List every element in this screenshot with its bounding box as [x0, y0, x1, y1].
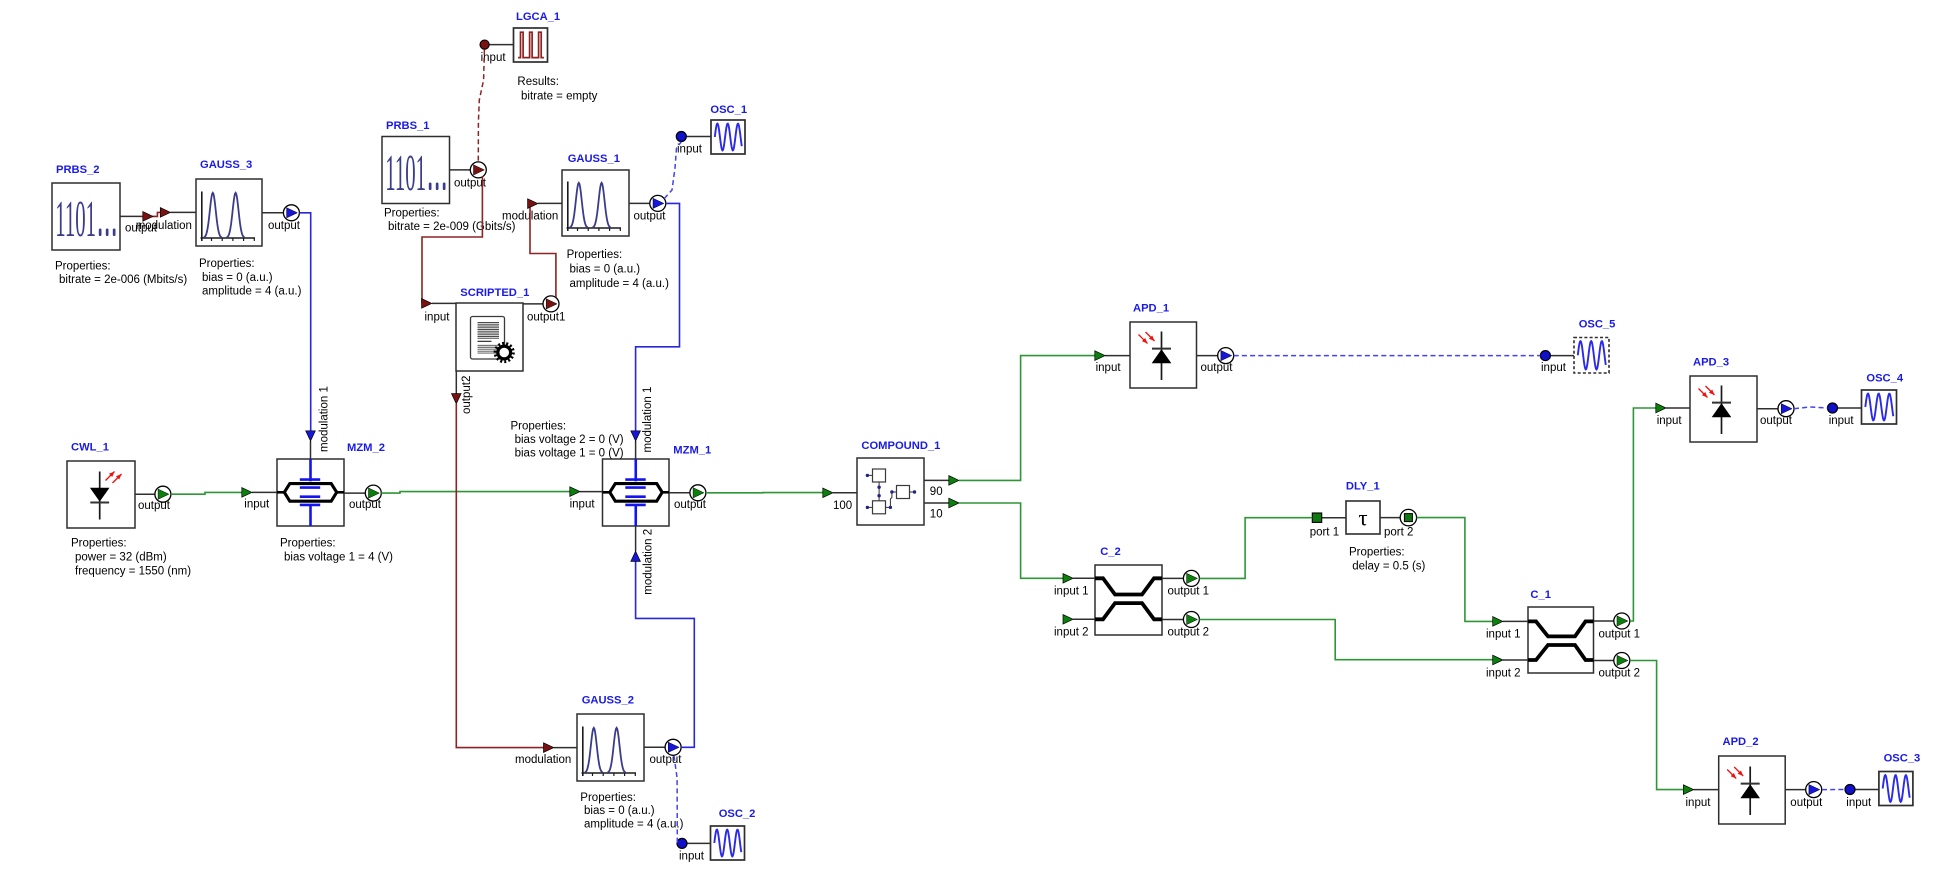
Mach-Zehnder modulator MZM_2: [277, 459, 344, 526]
oscilloscope OSC_2: [711, 826, 745, 860]
wire GAUSS_2.output to MZM_1.modulation2: [631, 551, 695, 747]
wire PRBS_1.output to SCRIPTED_1.input: [422, 176, 483, 308]
svg-text:output: output: [634, 211, 667, 223]
port C_1.output1: [1594, 613, 1641, 640]
label MZM_1: [673, 445, 711, 457]
svg-text:output: output: [1760, 415, 1793, 427]
wire SCRIPTED_1.output1 to GAUSS_1.modulation: [528, 199, 556, 297]
wire C_1.output2 to APD_2.input: [1630, 661, 1694, 795]
svg-text:OSC_4: OSC_4: [1866, 373, 1903, 385]
svg-text:amplitude = 4 (a.u.): amplitude = 4 (a.u.): [202, 286, 302, 298]
port SCRIPTED_1.input: [425, 303, 457, 323]
port MZM_1.output: [669, 485, 707, 511]
properties GAUSS_3: [199, 258, 302, 298]
avalanche photodiode APD_2: [1719, 756, 1786, 824]
svg-text:input 2: input 2: [1486, 667, 1521, 679]
wire GAUSS_1.output to OSC_1.input: [664, 142, 681, 199]
svg-text:input: input: [1541, 362, 1567, 374]
wire C_1.output1 to APD_3.input: [1630, 403, 1666, 621]
svg-text:output1: output1: [527, 312, 565, 324]
svg-text:output 2: output 2: [1168, 626, 1210, 638]
port COMPOUND_1.input 100: [833, 493, 857, 512]
port DLY_1.port1: [1310, 513, 1346, 539]
svg-text:output 1: output 1: [1599, 628, 1641, 640]
svg-text:output 1: output 1: [1168, 585, 1210, 597]
svg-text:GAUSS_1: GAUSS_1: [568, 153, 620, 165]
port OSC_5.input: [1540, 351, 1574, 374]
port OSC_1.input: [676, 132, 711, 156]
svg-text:bias voltage 1 = 4 (V): bias voltage 1 = 4 (V): [284, 552, 393, 564]
svg-text:delay = 0.5 (s): delay = 0.5 (s): [1352, 561, 1425, 573]
label GAUSS_3: [200, 159, 252, 171]
svg-text:modulation 1: modulation 1: [319, 386, 331, 452]
svg-text:input: input: [244, 499, 270, 511]
svg-text:LGCA_1: LGCA_1: [516, 11, 560, 23]
port APD_2.output: [1785, 782, 1823, 809]
svg-text:τ: τ: [1358, 506, 1367, 531]
svg-text:Properties:: Properties:: [280, 538, 336, 550]
port APD_1.input: [1096, 356, 1130, 374]
port OSC_4.input: [1828, 403, 1862, 427]
svg-text:bias = 0 (a.u.): bias = 0 (a.u.): [570, 264, 641, 276]
svg-text:input: input: [1686, 797, 1712, 809]
svg-text:MZM_2: MZM_2: [347, 442, 385, 454]
wire DLY_1.port2 to C_1.input1: [1417, 518, 1503, 627]
svg-text:output: output: [138, 500, 171, 512]
svg-text:10: 10: [930, 509, 943, 521]
label APD_3: [1693, 357, 1729, 369]
svg-text:output: output: [349, 499, 382, 511]
svg-text:input: input: [679, 851, 705, 863]
svg-text:Properties:: Properties:: [55, 261, 111, 273]
svg-text:bias voltage 1 = 0 (V): bias voltage 1 = 0 (V): [515, 448, 624, 460]
label CWL_1: [71, 442, 109, 454]
PRBS generator PRBS_1: [382, 137, 450, 204]
svg-text:Properties:: Properties:: [567, 249, 623, 261]
scripted block SCRIPTED_1: [456, 303, 523, 371]
port GAUSS_3.modulation: [136, 212, 196, 232]
wire COMPOUND_1.output90 to APD_1.input: [959, 351, 1105, 481]
port C_2.output2: [1162, 612, 1209, 639]
port MZM_2.output: [344, 485, 382, 511]
port C_2.input1: [1054, 578, 1095, 597]
label DLY_1: [1346, 481, 1380, 493]
label SCRIPTED_1: [460, 287, 529, 299]
avalanche photodiode APD_3: [1690, 376, 1757, 442]
svg-text:APD_2: APD_2: [1723, 736, 1759, 748]
svg-text:output: output: [1201, 362, 1234, 374]
port APD_1.output: [1197, 348, 1234, 374]
port LGCA_1.input: [480, 40, 514, 64]
svg-text:input 1: input 1: [1054, 585, 1089, 597]
svg-text:bitrate = 2e-009 (Gbits/s): bitrate = 2e-009 (Gbits/s): [388, 221, 516, 233]
coupler C_1: [1528, 607, 1594, 673]
PRBS generator PRBS_2: [52, 183, 120, 250]
properties PRBS_1: [384, 208, 516, 234]
wire SCRIPTED_1.output2 to GAUSS_2.modulation: [456, 404, 553, 753]
label GAUSS_1: [568, 153, 620, 165]
svg-text:power = 32 (dBm): power = 32 (dBm): [75, 552, 167, 564]
label MZM_2: [347, 442, 385, 454]
svg-text:port 1: port 1: [1310, 527, 1339, 539]
svg-text:amplitude = 4 (a.u.): amplitude = 4 (a.u.): [584, 819, 684, 831]
port APD_3.input: [1657, 408, 1690, 427]
svg-text:bias = 0 (a.u.): bias = 0 (a.u.): [202, 272, 273, 284]
svg-text:input: input: [1657, 415, 1683, 427]
properties GAUSS_1: [567, 249, 669, 290]
svg-text:OSC_3: OSC_3: [1884, 753, 1921, 765]
coupler C_2: [1095, 565, 1162, 635]
port COMPOUND_1.output 10: [924, 498, 959, 521]
svg-text:1101: 1101: [385, 144, 426, 202]
properties GAUSS_2: [580, 792, 683, 831]
label C_2: [1100, 546, 1121, 558]
properties DLY_1: [1349, 547, 1426, 573]
svg-text:bitrate = 2e-006 (Mbits/s): bitrate = 2e-006 (Mbits/s): [59, 274, 187, 286]
svg-text:Properties:: Properties:: [580, 792, 636, 804]
oscilloscope OSC_3: [1879, 772, 1913, 806]
svg-text:DLY_1: DLY_1: [1346, 481, 1380, 493]
svg-text:port 2: port 2: [1384, 527, 1413, 539]
port C_2.input2: [1054, 615, 1095, 639]
svg-text:input: input: [425, 312, 451, 324]
svg-text:APD_3: APD_3: [1693, 357, 1729, 369]
properties PRBS_2: [55, 261, 187, 287]
svg-text:input: input: [1846, 797, 1872, 809]
svg-text:input: input: [1096, 362, 1122, 374]
port MZM_2.modulation1: [311, 386, 331, 459]
svg-text:Results:: Results:: [517, 76, 559, 88]
wire COMPOUND_1.output10 to C_2.input1: [959, 503, 1073, 583]
port COMPOUND_1.output 90: [924, 476, 959, 498]
port GAUSS_1.output: [629, 195, 666, 222]
properties MZM_1: [511, 421, 624, 460]
wire APD_1.output to OSC_5.input: [1234, 355, 1541, 357]
oscilloscope OSC_5: [1574, 338, 1609, 374]
port C_1.output2: [1594, 653, 1641, 680]
port SCRIPTED_1.output1: [523, 296, 565, 324]
svg-text:bitrate = empty: bitrate = empty: [521, 90, 598, 102]
svg-text:modulation 2: modulation 2: [643, 529, 655, 595]
port MZM_1.modulation2: [636, 526, 655, 595]
port C_1.input1: [1486, 621, 1528, 640]
port MZM_1.modulation1: [636, 387, 654, 459]
pulse generator GAUSS_2: [577, 714, 644, 781]
port GAUSS_2.modulation: [515, 748, 577, 766]
svg-text:PRBS_1: PRBS_1: [386, 120, 430, 132]
svg-text:output 2: output 2: [1599, 667, 1641, 679]
svg-text:COMPOUND_1: COMPOUND_1: [861, 440, 940, 452]
pulse generator GAUSS_1: [562, 170, 629, 236]
svg-text:OSC_5: OSC_5: [1579, 319, 1616, 331]
port MZM_2.input: [244, 492, 277, 510]
label OSC_4: [1866, 373, 1903, 385]
oscilloscope OSC_1: [711, 120, 745, 154]
svg-text:output: output: [1790, 797, 1823, 809]
port PRBS_1.output: [450, 162, 487, 190]
svg-text:C_2: C_2: [1100, 546, 1121, 558]
label PRBS_2: [56, 164, 100, 176]
results LGCA_1: [517, 76, 597, 102]
oscilloscope OSC_4: [1862, 390, 1897, 424]
properties MZM_2: [280, 538, 393, 564]
svg-text:input: input: [677, 144, 703, 156]
compound component COMPOUND_1: [857, 458, 924, 525]
port GAUSS_2.output: [644, 739, 682, 766]
label OSC_2: [719, 808, 756, 820]
wire MZM_1.output to COMPOUND_1.input: [706, 488, 833, 498]
svg-text:output2: output2: [461, 376, 473, 414]
port DLY_1.port2: [1380, 509, 1417, 538]
label OSC_3: [1884, 753, 1921, 765]
label C_1: [1530, 589, 1551, 601]
svg-text:Properties:: Properties:: [1349, 547, 1405, 559]
svg-text:C_1: C_1: [1530, 589, 1551, 601]
label OSC_5: [1579, 319, 1616, 331]
svg-text:modulation: modulation: [515, 754, 571, 766]
port MZM_1.input: [570, 492, 603, 511]
label APD_1: [1133, 303, 1169, 315]
svg-text:output: output: [268, 220, 301, 232]
svg-text:OSC_1: OSC_1: [710, 104, 747, 116]
CW laser CWL_1: [67, 461, 135, 528]
port OSC_2.input: [677, 838, 711, 862]
svg-text:bias = 0 (a.u.): bias = 0 (a.u.): [584, 805, 655, 817]
svg-text:modulation: modulation: [136, 220, 192, 232]
port GAUSS_3.output: [262, 205, 301, 232]
svg-text:GAUSS_2: GAUSS_2: [582, 695, 634, 707]
properties CWL_1: [71, 538, 191, 578]
wire PRBS_2.output to GAUSS_3.modulation: [141, 208, 171, 222]
Mach-Zehnder modulator MZM_1: [603, 459, 670, 526]
svg-text:1101: 1101: [55, 190, 96, 248]
svg-text:CWL_1: CWL_1: [71, 442, 109, 454]
port OSC_3.input: [1845, 785, 1879, 809]
wire GAUSS_3.output to MZM_2.modulation1: [299, 213, 315, 441]
wire C_2.output2 to C_1.input2: [1199, 620, 1503, 665]
label GAUSS_2: [582, 695, 634, 707]
svg-text:Properties:: Properties:: [71, 538, 127, 550]
label OSC_1: [710, 104, 747, 116]
port APD_3.output: [1757, 401, 1794, 427]
svg-text:APD_1: APD_1: [1133, 303, 1169, 315]
svg-text:100: 100: [833, 500, 852, 512]
logic analyzer LGCA_1: [514, 28, 548, 62]
svg-text:input: input: [570, 499, 596, 511]
port C_1.input2: [1486, 660, 1528, 679]
label APD_2: [1723, 736, 1759, 748]
port C_2.output1: [1162, 570, 1209, 597]
svg-text:amplitude = 4 (a.u.): amplitude = 4 (a.u.): [570, 278, 670, 290]
wire CWL_1.output to MZM_2.input: [171, 488, 252, 498]
label PRBS_1: [386, 120, 430, 132]
svg-text:input 1: input 1: [1486, 628, 1521, 640]
svg-text:modulation 1: modulation 1: [642, 387, 654, 453]
svg-text:bias voltage 2 = 0 (V): bias voltage 2 = 0 (V): [515, 434, 624, 446]
label LGCA_1: [516, 11, 560, 23]
wire GAUSS_2.output to OSC_2.input: [674, 756, 677, 844]
pulse generator GAUSS_3: [196, 179, 262, 246]
wire GAUSS_1.output to MZM_1.modulation1: [631, 203, 680, 441]
svg-text:90: 90: [930, 486, 943, 498]
svg-text:output: output: [650, 754, 683, 766]
svg-text:Properties:: Properties:: [511, 421, 567, 433]
svg-text:SCRIPTED_1: SCRIPTED_1: [460, 287, 529, 299]
wire APD_2.output to OSC_3.input: [1822, 789, 1845, 791]
wire APD_3.output to OSC_4.input: [1794, 407, 1828, 409]
svg-text:input: input: [1829, 415, 1855, 427]
avalanche photodiode APD_1: [1130, 322, 1197, 388]
wire PRBS_1.output to LGCA_1.input: [478, 50, 484, 162]
delay DLY_1: [1346, 501, 1380, 534]
wire C_2.output1 to DLY_1.port1: [1199, 518, 1312, 579]
svg-text:PRBS_2: PRBS_2: [56, 164, 100, 176]
svg-text:GAUSS_3: GAUSS_3: [200, 159, 252, 171]
svg-text:MZM_1: MZM_1: [673, 445, 711, 457]
svg-text:Properties:: Properties:: [199, 258, 255, 270]
svg-text:output: output: [674, 499, 707, 511]
svg-text:OSC_2: OSC_2: [719, 808, 756, 820]
svg-text:Properties:: Properties:: [384, 208, 440, 220]
label COMPOUND_1: [861, 440, 940, 452]
wire MZM_2.output to MZM_1.input: [381, 487, 580, 497]
port SCRIPTED_1.output2: [452, 371, 474, 414]
svg-text:frequency = 1550 (nm): frequency = 1550 (nm): [75, 566, 191, 578]
port APD_2.input: [1686, 790, 1719, 809]
svg-text:input 2: input 2: [1054, 626, 1089, 638]
port PRBS_2.output: [120, 216, 158, 234]
port GAUSS_1.modulation: [502, 203, 562, 222]
port CWL_1.output: [135, 486, 171, 512]
